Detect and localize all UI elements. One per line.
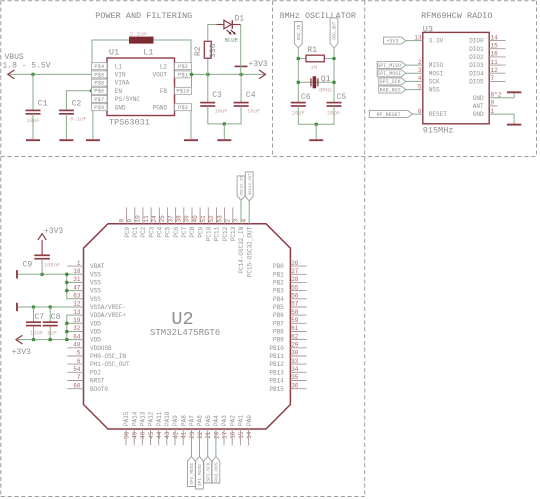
svg-text:P$6: P$6: [94, 88, 104, 95]
svg-text:DIO0: DIO0: [469, 38, 484, 45]
svg-text:15: 15: [238, 431, 245, 439]
svg-text:22: 22: [197, 431, 204, 439]
junction VDD bus b: [65, 322, 69, 326]
LED D1: [216, 15, 244, 44]
svg-text:8*2: 8*2: [491, 92, 502, 99]
svg-text:+3V3: +3V3: [12, 348, 31, 357]
wire RAD_NSS to PA4: [215, 429, 217, 457]
pin 22 PA6: [197, 415, 204, 439]
svg-text:PA3: PA3: [221, 415, 228, 426]
wire OSC_OUT vertical: [333, 48, 335, 102]
svg-text:OSC_OUT: OSC_OUT: [333, 21, 338, 39]
svg-text:L1: L1: [143, 48, 153, 58]
svg-text:VIN: VIN: [115, 72, 126, 79]
svg-text:46: 46: [140, 431, 147, 439]
wire R1 row: [298, 58, 334, 60]
svg-text:PA14: PA14: [131, 411, 138, 426]
wire U1 GND pin to ground: [92, 111, 94, 140]
svg-text:PB10: PB10: [269, 345, 284, 352]
svg-text:RAD_NSS: RAD_NSS: [380, 87, 401, 93]
svg-text:PC0: PC0: [124, 226, 131, 237]
svg-text:14: 14: [491, 34, 499, 41]
svg-text:PB4: PB4: [273, 296, 284, 303]
svg-text:OSC32_IN: OSC32_IN: [241, 176, 245, 196]
svg-text:PD2: PD2: [90, 369, 101, 376]
svg-text:ANT: ANT: [473, 103, 484, 110]
svg-text:C3: C3: [212, 91, 222, 100]
wire VSSA row: [17, 306, 84, 308]
net flag SPI_SCK: [379, 78, 406, 85]
svg-text:49: 49: [132, 431, 139, 439]
svg-text:P$1: P$1: [178, 71, 189, 78]
svg-text:PB3: PB3: [273, 288, 284, 295]
svg-text:52: 52: [208, 215, 215, 223]
svg-text:PB0: PB0: [273, 263, 284, 270]
svg-text:VSSA/VREF-: VSSA/VREF-: [90, 304, 126, 311]
junction C7 top: [32, 305, 36, 309]
wire SPI_MOSI to pin 3: [406, 72, 423, 74]
svg-text:GND: GND: [115, 104, 126, 111]
pin 10 PC2: [135, 207, 148, 237]
svg-text:10: 10: [135, 215, 142, 223]
svg-text:RAD_NSS: RAD_NSS: [214, 462, 220, 482]
svg-text:PA2: PA2: [229, 415, 236, 426]
pin 44 PA11: [156, 411, 163, 445]
junction VDD bus c: [65, 330, 69, 334]
svg-text:TPS63031: TPS63031: [109, 118, 150, 128]
svg-text:VDD: VDD: [90, 329, 101, 336]
pin 2 PC13: [225, 207, 238, 241]
svg-text:PA6: PA6: [197, 415, 204, 426]
svg-text:VBAT: VBAT: [90, 263, 105, 270]
pin 15 PA1: [238, 415, 245, 446]
capacitor C7: [26, 313, 44, 336]
wire OSC32_OUT to PC15: [248, 201, 250, 224]
svg-text:25: 25: [159, 215, 166, 223]
pin 62 PB9: [273, 333, 307, 343]
svg-text:L2: L2: [160, 63, 168, 70]
pin 12 DIO4 stub: [489, 67, 505, 74]
pin 36 PB15: [269, 382, 306, 392]
svg-text:41: 41: [181, 431, 188, 439]
svg-text:PA13: PA13: [140, 411, 147, 426]
capacitor C6: [291, 93, 311, 117]
wire C1 to ground: [32, 114, 34, 140]
wire C3 top: [207, 74, 209, 102]
net flag RAD_NSS: [212, 457, 220, 483]
supply +3V3 above C9: [38, 227, 64, 255]
pin 1 VBAT: [67, 260, 105, 270]
svg-text:PA4: PA4: [213, 415, 220, 426]
pin 14 DIO0 stub: [489, 34, 505, 41]
capacitor C9: [23, 255, 61, 269]
svg-text:C1: C1: [38, 100, 48, 109]
svg-text:PC4: PC4: [157, 226, 164, 237]
svg-text:PA11: PA11: [156, 411, 163, 426]
svg-text:PB15: PB15: [269, 386, 284, 393]
svg-text:POWER AND FILTERING: POWER AND FILTERING: [95, 11, 192, 21]
capacitor C8: [43, 313, 61, 336]
svg-text:11: 11: [143, 215, 150, 223]
svg-text:NSS: NSS: [429, 87, 440, 94]
net flag OSC_OUT: [330, 18, 338, 48]
pin 47 VSS: [73, 284, 101, 294]
svg-text:PB13: PB13: [269, 369, 284, 376]
frame left border: [0, 1, 2, 497]
junction crystal left: [297, 81, 301, 85]
wire R2 bottom: [207, 58, 209, 74]
svg-text:24: 24: [151, 215, 158, 223]
svg-text:PH0-OSC_IN: PH0-OSC_IN: [90, 353, 126, 360]
svg-text:SPI_SCK: SPI_SCK: [205, 462, 211, 482]
pin 6 PH1-OSC_OUT: [67, 358, 130, 368]
pin 17 PA3: [221, 415, 228, 446]
svg-text:MOSI: MOSI: [429, 70, 443, 77]
wire VSS ground bus: [17, 273, 84, 275]
pin 37 PC6: [167, 207, 180, 237]
svg-text:DIO2: DIO2: [469, 54, 484, 61]
svg-text:11: 11: [491, 59, 499, 66]
svg-text:PB6: PB6: [273, 312, 284, 319]
crystal Q1: [311, 75, 332, 93]
svg-text:PA10: PA10: [164, 411, 171, 426]
svg-text:EN: EN: [115, 88, 123, 95]
svg-text:BLUE: BLUE: [225, 36, 239, 43]
svg-text:53: 53: [216, 215, 223, 223]
pin 49 PA14: [131, 411, 138, 445]
wire VOUT to FB: [191, 74, 193, 87]
svg-text:100nF: 100nF: [44, 261, 61, 268]
pin 42 PA9: [172, 415, 179, 446]
svg-text:2: 2: [418, 59, 422, 66]
junction C9 bottom: [40, 273, 44, 277]
frame right border: [536, 1, 538, 157]
svg-text:SPI_MISO: SPI_MISO: [377, 63, 401, 69]
svg-text:C7: C7: [35, 313, 45, 322]
+3V3 arrow right: [259, 70, 266, 79]
wire RAD_NSS to pin 5: [406, 89, 423, 91]
op-amp U1 TPS63031 body: [92, 48, 192, 128]
junction C1/VBUS: [31, 73, 35, 77]
net flag OSC32_OUT: [245, 172, 253, 201]
pin 40 PC9: [192, 207, 205, 237]
svg-text:45: 45: [148, 431, 155, 439]
svg-text:PC3: PC3: [148, 226, 155, 237]
junction crystal right: [332, 81, 336, 85]
capacitor C1: [26, 100, 48, 124]
svg-text:PA7: PA7: [189, 415, 196, 426]
svg-text:10uF: 10uF: [247, 107, 260, 114]
wire inductor loop: [92, 40, 191, 63]
svg-text:PB14: PB14: [269, 378, 284, 385]
wire to ground C3/C4: [223, 124, 225, 139]
svg-text:3.3V: 3.3V: [429, 38, 444, 45]
pin 60 BOOT0: [67, 382, 108, 392]
frame divider oscillator/radio: [364, 1, 366, 497]
pin 27 PB1: [273, 268, 307, 278]
svg-text:51: 51: [200, 215, 207, 223]
ground under C1: [26, 139, 40, 141]
svg-text:VSS: VSS: [90, 280, 101, 287]
pin 63 VSS: [73, 293, 101, 303]
ground under C2: [59, 139, 73, 141]
svg-text:14: 14: [246, 431, 253, 439]
pin 1 GND wire: [489, 108, 514, 124]
ground under U1 PGND: [184, 139, 198, 141]
svg-text:GND: GND: [473, 95, 484, 102]
pin 38 PC7: [176, 207, 189, 237]
wire VDD bus: [67, 315, 84, 340]
svg-text:MISO: MISO: [429, 62, 444, 69]
svg-text:1.8 - 5.5V: 1.8 - 5.5V: [3, 62, 51, 71]
svg-text:D1: D1: [235, 15, 245, 24]
svg-text:PC14-OSC32_IN: PC14-OSC32_IN: [238, 226, 245, 273]
svg-text:0.1uF: 0.1uF: [70, 116, 87, 123]
radio module U3 body: [423, 25, 489, 136]
wire +3V3 to U3 pin 13: [406, 40, 423, 42]
svg-text:PC6: PC6: [173, 226, 180, 237]
pin 20 PA4: [213, 415, 220, 439]
pin 58 PB6: [273, 309, 307, 319]
junction D1 branch: [239, 73, 243, 77]
supply bar +3V3: [235, 65, 248, 67]
pin 8 PC0: [118, 207, 131, 237]
wire C4 top: [240, 74, 242, 102]
svg-text:+3V3: +3V3: [249, 60, 268, 69]
wire SPI_MISO to PA6: [199, 429, 201, 457]
wire C8 leads: [49, 307, 51, 322]
+3V3 arrow MCU: [16, 335, 23, 344]
svg-text:8MHz: 8MHz: [319, 86, 332, 93]
pin 48 VDDUSB: [67, 342, 112, 352]
svg-text:PB9: PB9: [273, 337, 284, 344]
ground under U1 GND: [86, 139, 100, 141]
svg-text:PGND: PGND: [153, 104, 168, 111]
svg-text:P$7: P$7: [94, 96, 104, 103]
junction C3/C4 ground: [223, 122, 227, 126]
svg-text:SCK: SCK: [429, 79, 440, 86]
svg-text:15: 15: [491, 43, 499, 50]
svg-text:VSS: VSS: [90, 271, 101, 278]
pin 14 PA0: [246, 415, 253, 446]
svg-text:C8: C8: [51, 313, 61, 322]
pin 54 PD2: [67, 366, 101, 376]
svg-text:PC5: PC5: [165, 226, 172, 237]
ground radio bottom: [507, 124, 521, 126]
svg-text:21: 21: [205, 431, 212, 439]
svg-text:PC15-OSC32_OUT: PC15-OSC32_OUT: [246, 226, 253, 277]
pin 33 PB12: [269, 358, 306, 368]
pin 45 PA12: [148, 411, 155, 445]
pin 64 VDD: [73, 333, 101, 343]
svg-text:C9: C9: [23, 261, 33, 270]
junction VDD bus a: [65, 338, 69, 342]
svg-text:1uF: 1uF: [47, 329, 57, 336]
junction C8 bottom: [48, 338, 52, 342]
svg-text:Q1: Q1: [321, 75, 331, 84]
svg-text:R1: R1: [307, 46, 317, 55]
svg-text:RF_RESET: RF_RESET: [377, 112, 401, 118]
wire C3 C4 bottoms: [208, 106, 241, 124]
svg-text:DIO1: DIO1: [469, 46, 484, 53]
svg-text:39: 39: [184, 215, 191, 223]
svg-text:C4: C4: [246, 91, 256, 100]
svg-text:PH1-OSC_OUT: PH1-OSC_OUT: [90, 361, 130, 368]
svg-text:VSS: VSS: [90, 288, 101, 295]
svg-text:P$3: P$3: [178, 104, 188, 111]
svg-text:+3V3: +3V3: [44, 227, 63, 236]
inductor L1: [129, 31, 154, 58]
svg-text:RESET: RESET: [429, 111, 447, 118]
resistor R1: [306, 46, 324, 71]
svg-text:PC9: PC9: [197, 226, 204, 237]
svg-text:SPI_MOSI: SPI_MOSI: [377, 71, 401, 77]
capacitor C2: [59, 100, 87, 123]
pin 55 PB3: [273, 284, 307, 294]
svg-text:SPI_MOSI: SPI_MOSI: [189, 463, 195, 485]
pin 16 PA2: [229, 415, 236, 446]
svg-text:PB1: PB1: [273, 271, 284, 278]
svg-text:3: 3: [418, 67, 422, 74]
svg-text:PA8: PA8: [180, 415, 187, 426]
wire C6 C5 bottoms: [298, 106, 334, 124]
svg-text:PB8: PB8: [273, 329, 284, 336]
wire VBUS input: [8, 73, 92, 75]
wire EN net to C2: [66, 91, 91, 111]
svg-text:PA5: PA5: [205, 415, 212, 426]
pin 21 PA5: [205, 415, 212, 439]
svg-text:PA0: PA0: [246, 415, 253, 426]
svg-text:P$5: P$5: [94, 71, 104, 78]
pin 7 NRST: [67, 374, 105, 384]
svg-text:20: 20: [213, 431, 220, 439]
svg-text:5: 5: [418, 83, 422, 90]
svg-text:23: 23: [189, 431, 196, 439]
junction VSS bus a: [65, 273, 69, 277]
svg-text:STM32L475RGT6: STM32L475RGT6: [150, 328, 220, 338]
pin 43 PA10: [164, 411, 171, 445]
net flag SPI_MOSI: [377, 70, 406, 77]
svg-text:PC11: PC11: [214, 226, 221, 241]
svg-text:1M: 1M: [311, 64, 318, 71]
svg-text:U1: U1: [109, 48, 119, 58]
wire crystal row: [298, 81, 334, 83]
svg-text:10nF: 10nF: [30, 329, 43, 336]
junction EN pin: [90, 89, 94, 93]
pin 50 PA15: [123, 411, 130, 445]
wire SPI_SCK to pin 4: [406, 80, 423, 82]
svg-text:44: 44: [156, 431, 163, 439]
svg-text:PC7: PC7: [181, 226, 188, 237]
net flag SPI_MOSI: [188, 457, 196, 487]
frame middle divider: [1, 156, 537, 158]
svg-text:37: 37: [167, 215, 174, 223]
svg-text:50: 50: [123, 431, 130, 439]
svg-text:3: 3: [233, 219, 240, 223]
svg-text:PA9: PA9: [172, 415, 179, 426]
svg-text:9: 9: [127, 219, 134, 223]
svg-text:C6: C6: [301, 93, 311, 102]
pin 18 VSS: [73, 268, 101, 278]
pin 12 VSSA/VREF-: [73, 301, 126, 311]
MCU U2 STM32L475RGT6 body: [84, 224, 291, 429]
wire SPI_MISO to pin 2: [406, 64, 423, 66]
svg-text:40: 40: [192, 215, 199, 223]
svg-text:PA15: PA15: [123, 411, 130, 426]
svg-text:7: 7: [491, 75, 495, 82]
junction C8 top: [48, 305, 52, 309]
svg-text:FB: FB: [160, 88, 168, 95]
pin 52 PC11: [208, 207, 221, 241]
pin 9 ANT stub: [489, 100, 497, 107]
wire C7 leads: [33, 307, 35, 322]
svg-text:4: 4: [418, 75, 422, 82]
wire OSC32_IN to PC14: [240, 200, 242, 223]
net flag OSC_IN: [294, 21, 302, 48]
svg-text:10uF: 10uF: [214, 107, 227, 114]
svg-text:SPI_MISO: SPI_MISO: [197, 464, 203, 486]
pin 59 PB7: [273, 317, 307, 327]
svg-text:PA12: PA12: [148, 411, 155, 426]
svg-text:13: 13: [414, 34, 422, 41]
pin 29 PB10: [269, 342, 306, 352]
ground oscillator: [309, 139, 323, 141]
svg-text:PB12: PB12: [269, 361, 284, 368]
svg-text:4: 4: [241, 219, 248, 223]
svg-text:PC2: PC2: [140, 226, 147, 237]
junction R1 left: [297, 57, 301, 61]
svg-text:VOUT: VOUT: [153, 72, 168, 79]
pin 32 VDD: [73, 325, 101, 335]
pin 56 PB4: [273, 293, 307, 303]
frame bottom border: [1, 496, 365, 498]
ground radio top: [507, 91, 521, 93]
net flag SPI_MISO: [196, 457, 204, 489]
pin 3 PC14-OSC32_IN: [233, 219, 246, 274]
wire U1 PGND pin to ground: [190, 111, 192, 140]
net flag RF_RESET: [369, 111, 412, 118]
net flag RAD_NSS: [379, 86, 406, 93]
capacitor C3: [200, 91, 227, 114]
pin 15 DIO1 stub: [489, 43, 505, 50]
svg-text:P$9: P$9: [94, 104, 104, 111]
pin 11 PC3: [143, 207, 156, 237]
svg-text:1: 1: [491, 108, 495, 115]
pin 46 PA13: [140, 411, 147, 445]
pin 13 VDDA/VREF+: [73, 309, 126, 319]
svg-text:PB2: PB2: [273, 280, 284, 287]
svg-text:16: 16: [230, 431, 237, 439]
svg-text:17: 17: [221, 431, 228, 439]
svg-text:12: 12: [491, 67, 499, 74]
wire R2 to D1: [208, 25, 217, 42]
svg-text:PB7: PB7: [273, 320, 284, 327]
svg-text:PC12: PC12: [222, 226, 229, 241]
svg-text:BOOT0: BOOT0: [90, 386, 108, 393]
resistor R2: [194, 41, 218, 58]
pin 11 DIO3 stub: [489, 59, 505, 66]
capacitor C5: [327, 93, 347, 117]
pin 9 PC1: [127, 207, 140, 237]
frame divider power/oscillator: [272, 1, 274, 157]
svg-text:915MHz: 915MHz: [423, 125, 454, 135]
svg-text:+3V3: +3V3: [386, 38, 398, 44]
junction VSS bus c: [65, 289, 69, 293]
svg-text:43: 43: [164, 431, 171, 439]
svg-text:PB11: PB11: [269, 353, 284, 360]
svg-text:2.2uH: 2.2uH: [130, 31, 147, 38]
svg-text:PA1: PA1: [238, 415, 245, 426]
